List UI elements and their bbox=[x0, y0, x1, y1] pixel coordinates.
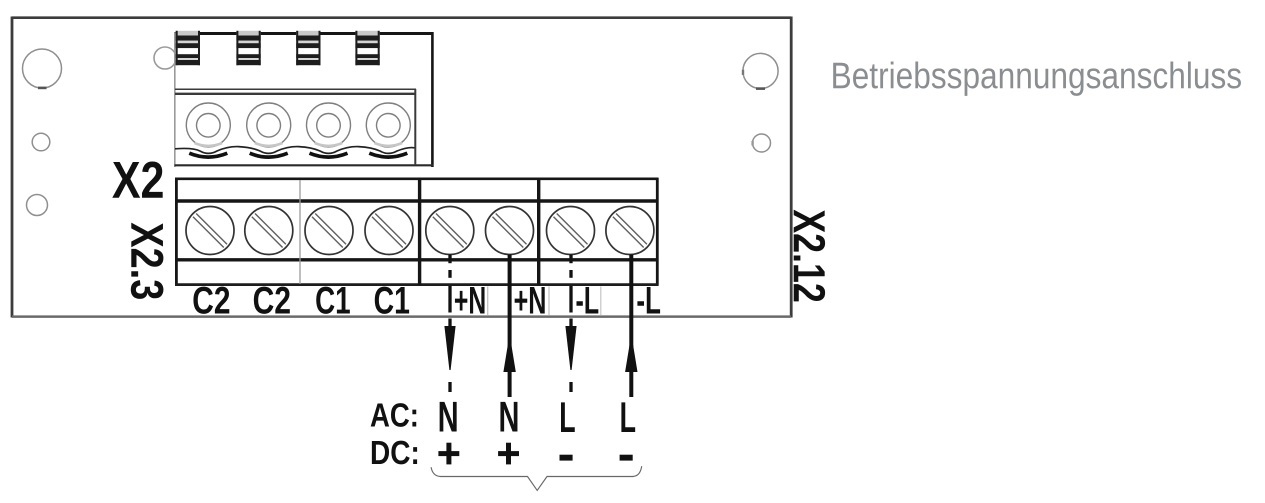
arrow down wire N1 bbox=[444, 326, 455, 370]
mounting hole left small 1 bbox=[32, 133, 50, 151]
wire N2 solid bbox=[508, 255, 512, 398]
mounting hole right small bbox=[751, 134, 770, 152]
DC polarity + (wire N2) bbox=[498, 443, 519, 465]
mounting hole left small 2 bbox=[27, 195, 48, 216]
screw terminal 3 bbox=[305, 207, 353, 255]
DC polarity - (wire L2) bbox=[620, 455, 633, 461]
mounting hole top-right bbox=[742, 53, 778, 90]
label X2 bbox=[112, 161, 162, 197]
terminal strip X2.3 body bbox=[175, 178, 659, 286]
connector X2 inner right divider bbox=[414, 89, 416, 165]
screw terminal 2 bbox=[245, 207, 293, 255]
label X2.3 rotated bbox=[131, 223, 164, 299]
DC polarity - (wire L1) bbox=[560, 455, 573, 461]
connector X2 clamp tooth 4 bbox=[355, 31, 379, 65]
terminal label +N (5) bbox=[455, 287, 485, 313]
label row faint separator after -L (7) bbox=[600, 287, 602, 316]
brace under DC row bbox=[431, 466, 642, 490]
arrow up wire N2 bbox=[503, 334, 515, 372]
node L (wire L1) bbox=[561, 402, 575, 432]
terminal label C1 (3) bbox=[316, 287, 350, 314]
label DC: bbox=[372, 441, 417, 465]
terminal label C2 (2) bbox=[254, 287, 290, 314]
terminal strip thin divider bbox=[299, 180, 301, 284]
connector X2 contact 2 bbox=[247, 103, 291, 147]
wire L1 dashed bbox=[569, 255, 572, 393]
terminal label -L (7) bbox=[576, 287, 598, 313]
arrow up wire L2 bbox=[625, 334, 637, 372]
node N (wire N2) bbox=[500, 402, 517, 432]
DC polarity + (wire N1) bbox=[438, 443, 459, 465]
connector X2 contact 3 bbox=[307, 103, 351, 147]
connector X2 clamp tooth 2 bbox=[236, 31, 260, 65]
connector X2 contact 1 bbox=[186, 103, 230, 147]
node L (wire L2) bbox=[621, 402, 635, 432]
screw terminal 8 bbox=[606, 207, 654, 255]
connector X2 clamp tooth 1 bbox=[176, 31, 200, 65]
board outline bbox=[12, 17, 791, 318]
connector X2 scalloped front edge bbox=[175, 147, 415, 154]
label row faint separator after +N (5) bbox=[487, 287, 489, 316]
connector X2 plug body bbox=[175, 32, 434, 167]
screw terminal 6 bbox=[486, 207, 534, 255]
wire N1 dashed bbox=[448, 255, 451, 393]
terminal label -L (8) bbox=[637, 287, 660, 313]
label X2.12 rotated bbox=[794, 210, 825, 302]
label AC: bbox=[371, 403, 417, 427]
terminal strip group divider 2 bbox=[537, 178, 540, 286]
connector X2 clamp tooth 3 bbox=[296, 31, 320, 65]
screw terminal 4 bbox=[365, 207, 413, 255]
screw terminal 1 bbox=[186, 207, 234, 255]
node N (wire N1) bbox=[440, 402, 457, 432]
wire L2 solid bbox=[629, 255, 633, 398]
terminal strip group divider 1 bbox=[418, 178, 421, 286]
label row faint separator after +N (6) bbox=[548, 287, 550, 316]
connector X2 inner double line bbox=[175, 89, 416, 94]
terminal label C2 (1) bbox=[193, 287, 229, 314]
connector X2 contact shadow arcs bbox=[189, 153, 407, 157]
mounting hole top-left bbox=[23, 49, 62, 89]
screw terminal 5 bbox=[426, 207, 474, 255]
terminal label C1 (4) bbox=[375, 287, 409, 314]
arrow down wire L1 bbox=[565, 326, 576, 370]
screw terminal 7 bbox=[547, 207, 595, 255]
connector X2 contact 4 bbox=[366, 103, 410, 147]
terminal label +N (6) bbox=[515, 287, 545, 313]
title Betriebsspannungsanschluss bbox=[833, 61, 1241, 95]
connector X2 locating tab bbox=[154, 47, 176, 69]
